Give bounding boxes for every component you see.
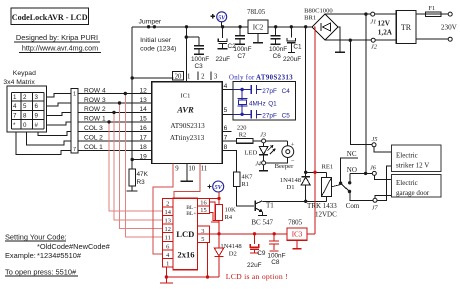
svg-text:R3: R3 xyxy=(137,179,146,186)
svg-text:BR1: BR1 xyxy=(304,15,316,22)
svg-text:ROW 4: ROW 4 xyxy=(84,87,106,94)
wire garage to J7 xyxy=(375,195,392,198)
wire J3 to beeper xyxy=(266,141,288,146)
LCD display 2x16 xyxy=(163,198,210,269)
svg-text:27pF: 27pF xyxy=(262,88,277,95)
wire LCD pin5 ground xyxy=(206,243,209,279)
svg-text:27pF: 27pF xyxy=(262,113,277,120)
terminal J3 xyxy=(260,132,266,143)
svg-text:15: 15 xyxy=(200,207,206,214)
title box xyxy=(11,8,89,25)
electric striker box xyxy=(392,145,442,171)
svg-text:10K: 10K xyxy=(225,207,236,214)
label 12V 1,2A xyxy=(378,19,393,36)
svg-text:LCD is an option !: LCD is an option ! xyxy=(226,272,288,281)
keypad label xyxy=(3,70,36,86)
capacitor C3 xyxy=(185,35,210,70)
svg-text:3: 3 xyxy=(201,228,204,235)
label pin 5 xyxy=(224,107,228,114)
svg-text:COL 3: COL 3 xyxy=(84,125,103,132)
wire bridge AC bottom rail J2 xyxy=(325,39,396,42)
resistor R1 4K7 xyxy=(233,172,253,188)
wire T1 collector xyxy=(262,200,326,202)
wire keypad row3 xyxy=(47,112,71,115)
svg-text:13: 13 xyxy=(139,97,147,104)
svg-text:6: 6 xyxy=(166,243,169,250)
svg-text:10: 10 xyxy=(188,165,195,172)
capacitor C4 xyxy=(233,85,290,95)
svg-text:0: 0 xyxy=(23,122,27,129)
svg-text:ROW 1: ROW 1 xyxy=(84,116,106,123)
svg-text:1: 1 xyxy=(166,261,169,268)
svg-text:220: 220 xyxy=(237,124,247,131)
wire AVR pin9 to LCD RS xyxy=(153,163,173,254)
svg-text:C7: C7 xyxy=(237,53,246,60)
svg-text:CodeLockAVR - LCD: CodeLockAVR - LCD xyxy=(12,13,88,22)
svg-text:IC3: IC3 xyxy=(292,231,303,239)
jumper JP1 xyxy=(139,19,162,29)
wire TR bottom to terminal xyxy=(416,38,448,40)
svg-text:R4: R4 xyxy=(225,214,233,221)
svg-text:2x16: 2x16 xyxy=(177,249,195,259)
svg-text:J5: J5 xyxy=(372,136,378,143)
relay switch link xyxy=(332,185,341,187)
op-amp: microcontroller IC1 AVR AT90S2313/ATtiny2313 xyxy=(152,72,222,173)
wire pin1 drop xyxy=(185,25,188,81)
regulator IC3 7805 xyxy=(287,219,315,249)
wire J2 to J5 xyxy=(350,40,372,144)
svg-text:12VDC: 12VDC xyxy=(315,211,337,219)
svg-text:14: 14 xyxy=(165,209,172,216)
svg-text:BL+: BL+ xyxy=(186,211,196,217)
svg-text:Beeper: Beeper xyxy=(275,163,294,170)
wire striker to com xyxy=(377,166,392,200)
svg-text:5V: 5V xyxy=(218,14,226,21)
svg-text:striker 12 V: striker 12 V xyxy=(396,162,429,170)
svg-text:C5: C5 xyxy=(282,113,291,120)
terminal J5 xyxy=(372,136,378,147)
node ROW2/LCD13 bus xyxy=(112,111,162,220)
capacitor C7 xyxy=(233,25,251,60)
electric garage door box xyxy=(392,174,442,197)
svg-text:100nF: 100nF xyxy=(269,46,287,53)
svg-text:16: 16 xyxy=(200,200,206,207)
svg-text:NC: NC xyxy=(347,150,357,158)
svg-text:J1: J1 xyxy=(370,19,376,26)
svg-text:RE1: RE1 xyxy=(322,164,334,171)
svg-text:Setting Your Code:: Setting Your Code: xyxy=(5,232,67,241)
terminal J4 xyxy=(255,161,265,168)
label pin 7 xyxy=(224,135,228,142)
wire ROW 3 to pin 13 xyxy=(78,97,152,104)
svg-text:15: 15 xyxy=(139,116,147,123)
wire +5V rail xyxy=(132,26,313,28)
label LCD option xyxy=(226,272,288,281)
svg-text:F1: F1 xyxy=(428,5,435,12)
diode D2 1N4148 xyxy=(214,234,242,277)
svg-text:ROW 2: ROW 2 xyxy=(84,106,106,113)
svg-text:47K: 47K xyxy=(137,171,149,178)
label pin 6 xyxy=(224,125,228,132)
beeper SG1 xyxy=(275,141,295,170)
power +5V top xyxy=(211,12,227,29)
wire J4 ground xyxy=(259,165,268,171)
svg-text:3x4 Matrix: 3x4 Matrix xyxy=(3,79,35,86)
svg-text:T1: T1 xyxy=(266,202,274,210)
svg-text:220uF: 220uF xyxy=(283,56,301,63)
diode D1 1N4148 xyxy=(280,172,310,203)
keypad 3x4 matrix KP1 xyxy=(7,86,47,132)
label to open press xyxy=(5,267,78,276)
transformer TR xyxy=(396,10,416,43)
svg-text:C9: C9 xyxy=(257,250,266,257)
capacitor C5 xyxy=(233,110,290,120)
wire COL 2 to pin 17 xyxy=(78,135,152,142)
svg-text:100nF: 100nF xyxy=(233,46,251,53)
label pin 8 xyxy=(224,144,228,151)
wire J6 to garage xyxy=(374,175,391,179)
svg-text:NO: NO xyxy=(347,166,357,174)
svg-text:100nF: 100nF xyxy=(191,56,209,63)
wire J1 to NO xyxy=(365,14,367,173)
terminal J6 xyxy=(370,165,377,176)
capacitor C2 xyxy=(216,27,237,63)
svg-text:5: 5 xyxy=(201,236,204,243)
label setting your code xyxy=(5,232,111,259)
svg-text:12: 12 xyxy=(165,226,171,233)
svg-text:Only for: Only for xyxy=(229,75,255,82)
node ROW3/LCD12 bus xyxy=(118,101,163,228)
crystal option box xyxy=(233,82,295,120)
svg-text:Com: Com xyxy=(346,202,360,210)
wire keypad row4 xyxy=(47,122,71,125)
svg-text:+: + xyxy=(291,141,295,148)
svg-text:AVR: AVR xyxy=(176,105,194,115)
svg-text:garage door: garage door xyxy=(396,189,430,197)
wire VCC drop to pin20 and R3 xyxy=(131,27,174,161)
wire keypad row2 xyxy=(47,103,71,106)
svg-text:4K7: 4K7 xyxy=(242,174,254,181)
svg-text:2: 2 xyxy=(166,200,169,207)
svg-text:R2: R2 xyxy=(239,132,246,139)
svg-text:*1234#5510#: *1234#5510# xyxy=(37,251,82,260)
svg-text:1: 1 xyxy=(73,92,76,98)
svg-text:TRK 1433: TRK 1433 xyxy=(307,202,337,210)
capacitor C6 xyxy=(269,25,287,60)
svg-text:Electric: Electric xyxy=(396,152,418,160)
wire ROW 4 to pin 12 xyxy=(78,87,152,94)
wire LCD pin15 to R4 xyxy=(210,212,220,220)
connector SV1 xyxy=(71,88,78,153)
wire ROW 2 to pin 14 xyxy=(78,106,152,113)
svg-text:2: 2 xyxy=(23,94,27,101)
svg-text:4: 4 xyxy=(224,83,228,90)
svg-text:B80C1000: B80C1000 xyxy=(304,7,333,14)
terminal J2 xyxy=(371,38,378,50)
wire keypad col2 xyxy=(27,132,72,145)
svg-text:230V: 230V xyxy=(441,24,458,32)
terminal J7 xyxy=(372,198,379,211)
svg-text:78L05: 78L05 xyxy=(247,8,266,16)
terminal J1 xyxy=(370,12,376,25)
svg-text:AT90S2313: AT90S2313 xyxy=(256,75,293,82)
svg-text:BC 547: BC 547 xyxy=(251,219,273,227)
svg-text:9: 9 xyxy=(35,113,39,120)
svg-text:C6: C6 xyxy=(273,53,282,60)
wire pin6 stub xyxy=(222,130,231,132)
svg-text:ATtiny2313: ATtiny2313 xyxy=(170,134,205,142)
capacitor C9 xyxy=(247,232,266,269)
relay RE1 coil xyxy=(307,164,337,219)
svg-text:14: 14 xyxy=(139,106,147,113)
svg-text:J3: J3 xyxy=(260,132,266,139)
svg-text:11: 11 xyxy=(165,235,171,242)
wire pin4 xyxy=(222,89,233,91)
svg-text:R1: R1 xyxy=(242,181,249,188)
wire LCD pin16 to ground xyxy=(210,202,220,222)
wire LCD pin3 rail xyxy=(210,232,288,235)
wire relay +12V feed xyxy=(304,171,327,174)
relay contact NC xyxy=(339,150,358,185)
svg-text:LED: LED xyxy=(244,150,257,157)
svg-text:4MHz: 4MHz xyxy=(249,100,266,107)
node ROW4/LCD11 bus xyxy=(124,92,163,237)
svg-text:9: 9 xyxy=(175,165,179,172)
svg-text:TR: TR xyxy=(401,23,412,32)
wire pin19 to R3 node xyxy=(132,159,152,161)
svg-text:2: 2 xyxy=(201,74,205,81)
svg-text:J2: J2 xyxy=(371,44,378,51)
regulator IC2 78L05 xyxy=(247,8,268,43)
svg-text:#: # xyxy=(35,122,39,129)
svg-text:AT90S2313: AT90S2313 xyxy=(170,122,205,130)
crystal Q1 4MHz xyxy=(238,90,278,115)
svg-text:8: 8 xyxy=(23,113,27,120)
wire keypad col3 xyxy=(38,131,71,135)
capacitor C8 xyxy=(267,232,285,266)
wire pin10 ground xyxy=(181,163,194,181)
svg-text:7805: 7805 xyxy=(288,219,303,227)
relay common lever xyxy=(341,183,373,210)
terminal 230V top xyxy=(448,12,452,16)
svg-text:IC2: IC2 xyxy=(253,24,264,32)
svg-text:18: 18 xyxy=(139,144,147,151)
resistor R3 47K xyxy=(127,160,149,192)
label only for AT90S2313 xyxy=(229,75,293,82)
wire AVR pin11 to LCD xyxy=(174,163,200,199)
svg-text:12: 12 xyxy=(139,87,147,94)
svg-text:3: 3 xyxy=(35,94,39,101)
wire 12V drop to relay xyxy=(304,25,307,172)
label pin 19 xyxy=(139,153,147,160)
wire bridge minus to ground xyxy=(335,27,345,52)
svg-text:1,2A: 1,2A xyxy=(378,29,393,37)
svg-text:C8: C8 xyxy=(271,259,280,266)
node ROW1/LCD14 bus xyxy=(107,120,162,211)
terminal 230V bottom xyxy=(448,37,452,41)
svg-text:Designed by: Kripa PURI: Designed by: Kripa PURI xyxy=(16,33,98,42)
wire keypad col1 xyxy=(16,132,71,155)
svg-text:13: 13 xyxy=(165,218,171,225)
svg-text:5: 5 xyxy=(23,103,27,110)
wire +5V to LCD pin2 xyxy=(165,197,220,200)
transistor T1 BC547 xyxy=(251,200,274,226)
svg-text:6: 6 xyxy=(35,103,39,110)
svg-text:16: 16 xyxy=(139,125,147,132)
wire pin5 xyxy=(222,113,233,115)
svg-text:22uF: 22uF xyxy=(216,56,231,63)
svg-text:17: 17 xyxy=(139,135,147,142)
svg-text:5: 5 xyxy=(224,107,228,114)
svg-text:Q1: Q1 xyxy=(268,100,277,107)
svg-text:Electric: Electric xyxy=(396,179,418,187)
svg-text:C1: C1 xyxy=(293,44,302,51)
svg-text:J7: J7 xyxy=(372,205,379,212)
svg-text:Example:: Example: xyxy=(5,251,36,260)
svg-text:J4: J4 xyxy=(255,161,261,168)
svg-text:1: 1 xyxy=(187,74,190,81)
svg-text:22uF: 22uF xyxy=(247,262,262,269)
wire R1 to T1 base xyxy=(237,186,254,206)
svg-text:D2: D2 xyxy=(229,251,237,258)
fuse F1 xyxy=(416,5,448,16)
svg-text:1N4148: 1N4148 xyxy=(280,177,302,184)
relay contact NO xyxy=(347,166,373,185)
svg-text:20: 20 xyxy=(175,74,182,81)
svg-text:C4: C4 xyxy=(282,88,291,95)
wire pin7 to R2 xyxy=(222,140,236,142)
wire COL 3 to pin 16 xyxy=(78,125,152,132)
svg-text:LCD: LCD xyxy=(176,229,194,239)
resistor R2 220 xyxy=(237,124,262,143)
svg-text:J6: J6 xyxy=(370,165,377,172)
svg-text:http://www.avr.4mg.com: http://www.avr.4mg.com xyxy=(22,43,98,52)
label 230V xyxy=(441,24,458,32)
resistor R4 10K xyxy=(216,198,236,233)
svg-text:IC1: IC1 xyxy=(181,93,191,100)
wire ROW 1 to pin 15 xyxy=(78,116,152,123)
bridge rectifier BR1 B80C1000 xyxy=(304,7,338,40)
svg-text:code (1234): code (1234) xyxy=(140,46,176,53)
svg-text:Jumper: Jumper xyxy=(139,19,162,26)
svg-text:*OldCode#NewCode#: *OldCode#NewCode# xyxy=(37,242,111,251)
author note xyxy=(14,33,101,52)
svg-text:C3: C3 xyxy=(195,63,204,70)
svg-text:COL 2: COL 2 xyxy=(84,135,103,142)
wire pin8 to R1 xyxy=(222,150,236,172)
svg-text:3: 3 xyxy=(214,74,218,81)
label pin 4 xyxy=(224,83,228,90)
wire 12V red rail xyxy=(313,27,316,234)
svg-text:Initial user: Initial user xyxy=(140,37,172,44)
wire J5 to striker xyxy=(374,147,392,152)
wire COL 1 to pin 18 xyxy=(78,144,152,151)
svg-text:4: 4 xyxy=(13,103,17,110)
svg-text:COL 1: COL 1 xyxy=(84,144,103,151)
svg-text:Keypad: Keypad xyxy=(13,70,36,77)
svg-text:12V: 12V xyxy=(378,19,391,27)
svg-text:7: 7 xyxy=(73,147,76,153)
wire bridge AC top rail J1 xyxy=(325,12,396,15)
svg-text:ROW 3: ROW 3 xyxy=(84,97,106,104)
svg-text:11: 11 xyxy=(201,165,208,172)
svg-text:7: 7 xyxy=(13,113,17,120)
svg-text:1: 1 xyxy=(13,94,17,101)
svg-text:D1: D1 xyxy=(287,184,295,191)
LED LED1 xyxy=(244,143,275,161)
svg-text:To open press: 5510#: To open press: 5510# xyxy=(5,267,77,276)
capacitor C1 xyxy=(283,25,302,63)
svg-text:5V: 5V xyxy=(214,184,222,191)
label initial user code xyxy=(140,37,176,53)
wire beeper to J4 xyxy=(266,158,288,163)
power +5V LCD xyxy=(207,181,223,198)
wire LCD pin1 ground rail xyxy=(160,267,219,283)
wire keypad row1 xyxy=(47,94,71,97)
